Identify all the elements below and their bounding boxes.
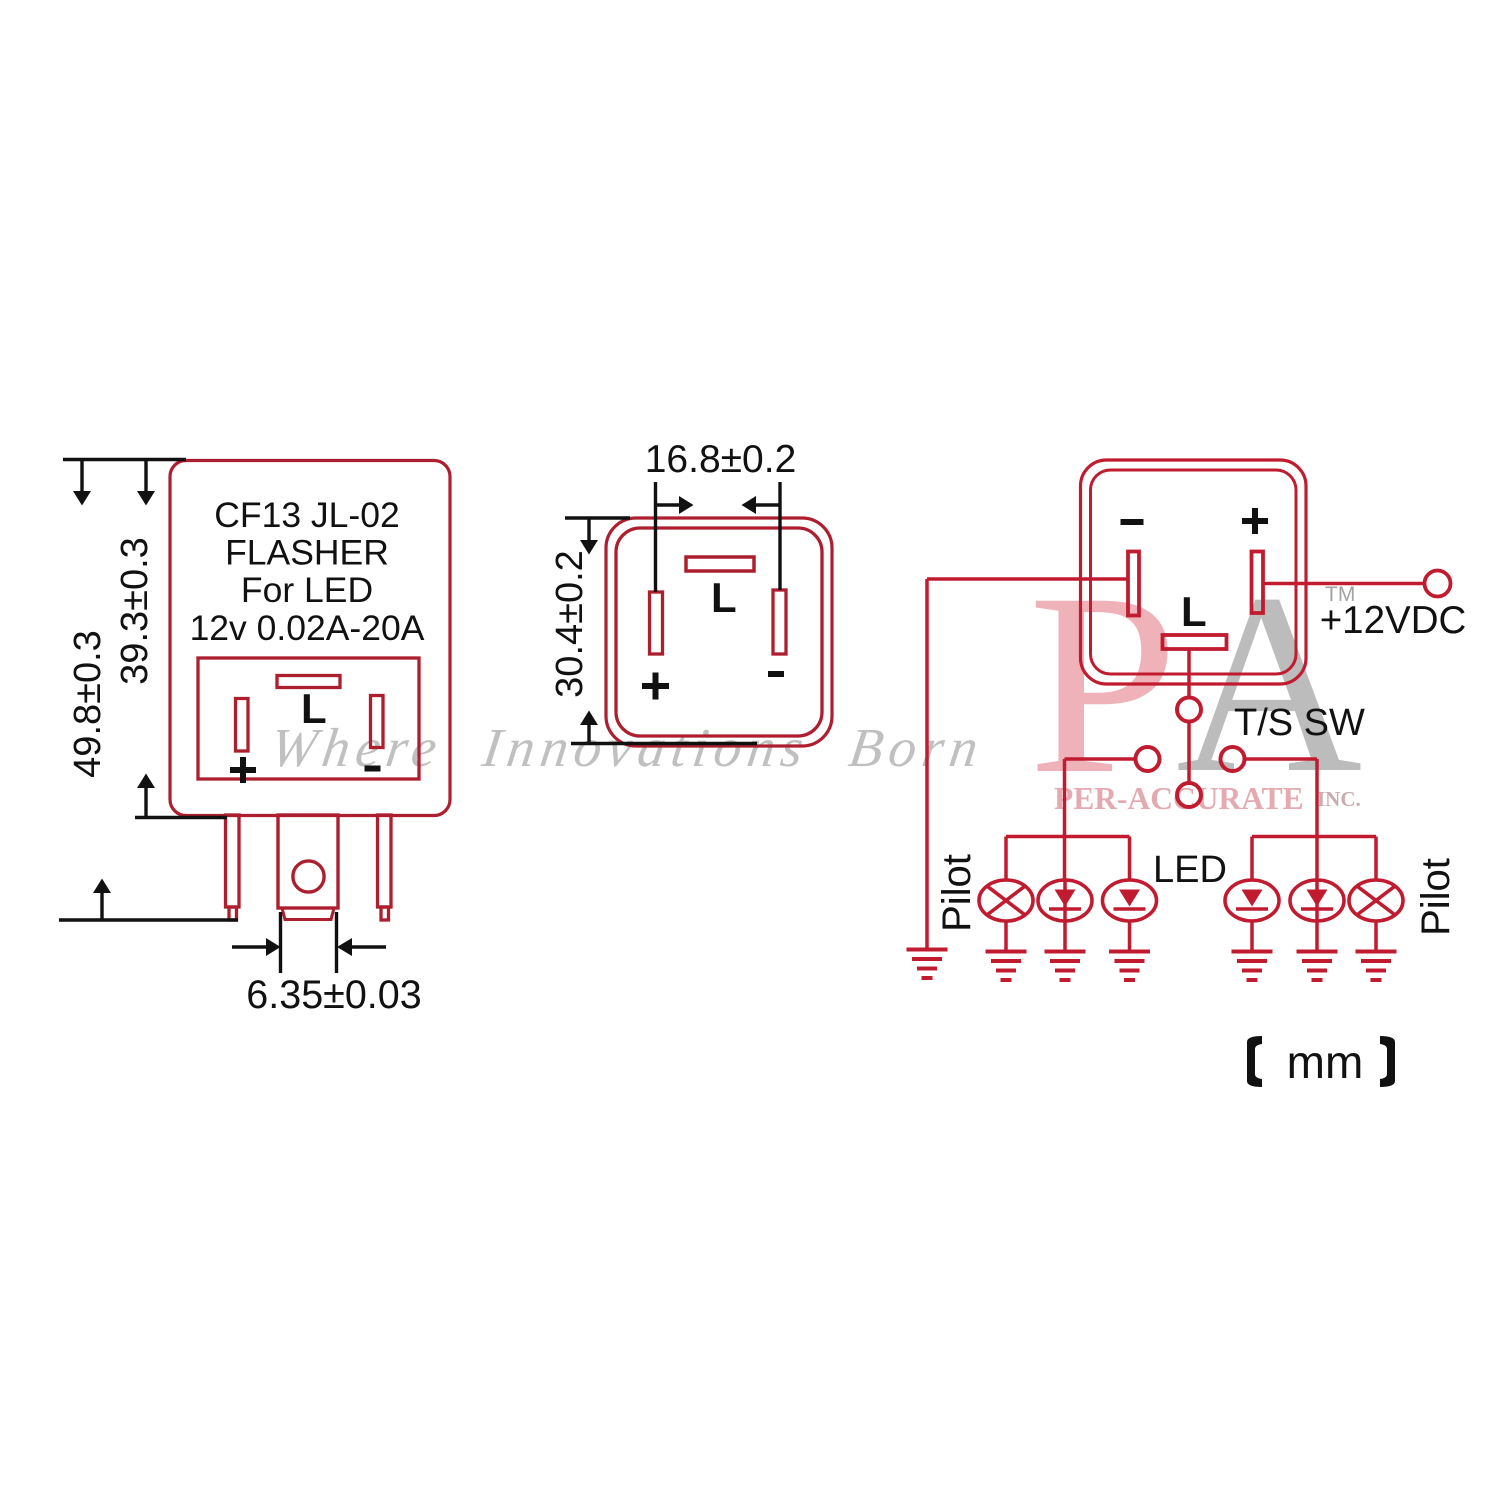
svg-text:39.3±0.3: 39.3±0.3: [114, 537, 156, 685]
svg-text:L: L: [301, 685, 327, 732]
svg-text:INC.: INC.: [1317, 787, 1361, 811]
svg-text:CF13 JL-02: CF13 JL-02: [214, 495, 399, 535]
svg-text:Pilot: Pilot: [1414, 858, 1458, 936]
svg-text:mm: mm: [1287, 1036, 1364, 1088]
svg-text:FLASHER: FLASHER: [225, 533, 389, 573]
svg-text:Pilot: Pilot: [935, 854, 979, 932]
svg-text:+12VDC: +12VDC: [1320, 599, 1467, 642]
svg-text:30.4±0.2: 30.4±0.2: [549, 550, 591, 698]
svg-text:16.8±0.2: 16.8±0.2: [645, 438, 797, 481]
svg-text:6.35±0.03: 6.35±0.03: [246, 973, 421, 1017]
svg-text:49.8±0.3: 49.8±0.3: [67, 630, 109, 778]
svg-text:12v 0.02A-20A: 12v 0.02A-20A: [190, 608, 425, 648]
svg-text:For LED: For LED: [241, 570, 373, 610]
svg-text:LED: LED: [1153, 849, 1227, 891]
svg-text:L: L: [1181, 588, 1207, 635]
svg-text:T/S SW: T/S SW: [1234, 702, 1365, 744]
svg-text:L: L: [711, 574, 737, 621]
